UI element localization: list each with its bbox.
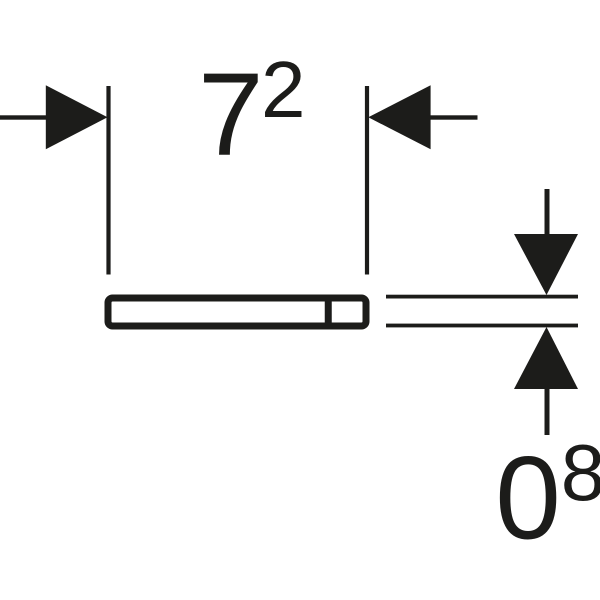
svg-text:2: 2 [261,45,306,134]
svg-text:0: 0 [495,432,561,564]
svg-text:8: 8 [561,428,600,517]
svg-text:7: 7 [198,49,264,181]
